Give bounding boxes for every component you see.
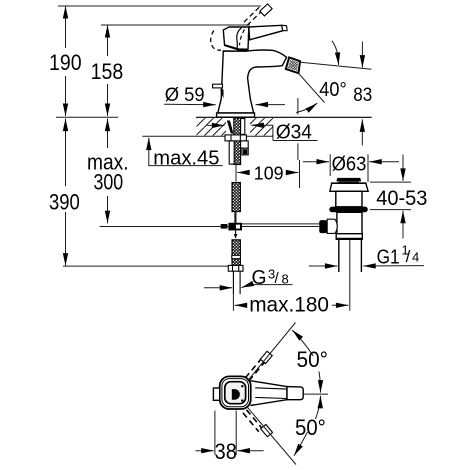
dashed lever (raised position) <box>244 7 263 25</box>
hose ferrule band <box>232 255 241 258</box>
countertop bottom line / max45 reference line <box>142 135 273 137</box>
head outer outline <box>220 376 251 409</box>
drain body upper <box>336 191 362 207</box>
reference line 158 datum <box>101 24 250 26</box>
dimension line 190 <box>65 6 67 48</box>
knob shadow wedge <box>220 90 224 99</box>
horizontal pop-up rod to drain <box>242 223 320 225</box>
Ø34 hole arrows <box>207 124 224 126</box>
reference line top (190 upper datum) <box>58 5 261 7</box>
aerator (spout outlet) <box>286 57 300 73</box>
max180 left extension line <box>232 294 234 311</box>
hose nipple right <box>241 141 249 148</box>
svg-text:300: 300 <box>94 170 124 195</box>
drain flange <box>330 183 368 191</box>
hose end nut <box>228 265 243 271</box>
spray axis extension line upper <box>297 98 299 115</box>
svg-text:max.180: max.180 <box>249 293 329 316</box>
head internal curve <box>237 28 242 50</box>
svg-text:190: 190 <box>49 50 82 75</box>
dimension line 158 <box>107 25 109 56</box>
lift rod below nut <box>229 141 234 164</box>
flexible hose upper segment <box>232 183 240 212</box>
Ø34 label underline <box>273 140 318 142</box>
svg-text:G1: G1 <box>377 247 400 269</box>
dashed head outline (alternate) <box>211 31 221 51</box>
lift rod knob on body <box>213 84 223 88</box>
40-53 reference lines <box>370 181 411 183</box>
svg-text:40°: 40° <box>319 79 346 101</box>
Ø59 right arrow <box>256 104 285 106</box>
dashed raised-lever front edge <box>240 30 245 46</box>
svg-text:G: G <box>252 267 267 289</box>
aerator face extension line <box>301 62 372 69</box>
head inner square <box>225 382 246 404</box>
arm tip block <box>287 387 303 400</box>
109 left extension line (hose axis) <box>235 162 237 182</box>
pop-up rod vertical <box>234 212 236 224</box>
max.300 bottom reference line <box>100 226 229 228</box>
G1 1/4 arrows <box>309 265 338 267</box>
lower 50 ray <box>247 407 296 465</box>
svg-text:Ø34: Ø34 <box>276 122 312 144</box>
109 right extension line <box>299 160 301 188</box>
head bottom thick edge <box>225 44 248 50</box>
390 bottom reference line <box>63 265 228 267</box>
svg-text:Ø 59: Ø 59 <box>165 85 205 106</box>
upper 50 arc <box>292 330 313 356</box>
rod socket on drain <box>327 219 337 233</box>
svg-text:40-53: 40-53 <box>376 187 427 210</box>
109 dimension arrows <box>237 172 246 174</box>
rod adjustment knob <box>319 220 327 233</box>
svg-text:/: / <box>406 247 411 266</box>
dimension line max.300 <box>107 119 109 148</box>
faucet body outline <box>218 50 287 113</box>
flexible hose lower segment <box>232 240 240 265</box>
drain plug cap <box>336 178 361 182</box>
svg-text:390: 390 <box>49 189 80 214</box>
svg-text:8: 8 <box>282 272 289 287</box>
drain centerline / max180 right extension <box>349 240 351 311</box>
upper dashed lever <box>245 358 261 378</box>
lever end cap <box>282 25 288 31</box>
drain lock nut <box>336 234 362 240</box>
drain body lower <box>337 212 362 233</box>
svg-text:83: 83 <box>353 85 372 106</box>
max.180 dimension <box>235 304 247 306</box>
lower 50 arc <box>316 396 321 419</box>
Ø63 arrows <box>303 161 329 163</box>
dimension line 390 <box>65 119 67 186</box>
40 degree diagonal line <box>298 73 324 103</box>
countertop hatching left of hole <box>197 118 227 136</box>
38 arrows <box>196 450 214 452</box>
countertop top line <box>196 116 372 118</box>
countertop hatching right of hole <box>250 118 273 136</box>
drain: Ø63 extension lines <box>329 154 331 176</box>
centerline right <box>304 393 328 395</box>
mounting nut <box>225 135 246 141</box>
left tab <box>213 388 219 400</box>
40 degree arc arrow <box>296 103 317 112</box>
svg-text:Ø63: Ø63 <box>332 153 367 175</box>
svg-text:50°: 50° <box>295 415 326 440</box>
threaded shank through countertop <box>234 118 241 165</box>
40-53 arrows <box>402 155 404 181</box>
Ø59 leader arrow <box>164 103 216 105</box>
left countertop datum segment <box>56 116 118 118</box>
shank left wedge <box>227 121 234 134</box>
max.45 arrow <box>148 138 150 148</box>
faucet head block <box>223 27 249 50</box>
dashed lever end cap <box>260 4 272 16</box>
svg-text:38: 38 <box>215 439 237 464</box>
arm inner lines <box>255 388 287 389</box>
rod lower stub <box>235 230 237 234</box>
svg-text:109: 109 <box>254 162 284 183</box>
svg-text:50°: 50° <box>297 347 329 372</box>
83 left arrow (slanted) <box>332 41 339 65</box>
38 extension lines <box>214 411 216 456</box>
svg-text:4: 4 <box>412 250 419 265</box>
max.45 leader box <box>149 148 223 166</box>
pop-up rod T connector <box>228 223 242 231</box>
G3/8 arrows <box>204 287 232 289</box>
corner dots <box>241 385 243 387</box>
upper 50 ray <box>248 323 296 382</box>
faucet base plinth <box>217 113 255 117</box>
handle arm top/bottom <box>250 381 287 406</box>
83 lower arrow <box>361 119 363 145</box>
svg-text:158: 158 <box>91 59 124 84</box>
lower dashed lever <box>247 410 263 429</box>
lever handle <box>249 25 283 40</box>
drain tailpipe <box>338 240 340 273</box>
svg-text:max.45: max.45 <box>153 147 219 169</box>
D mark <box>232 389 240 400</box>
G3/8 connection tube <box>232 271 234 294</box>
83 right upper arrow <box>361 42 363 68</box>
pop-up rod horizontal connector clamp <box>221 224 228 229</box>
drain O-ring <box>329 207 368 213</box>
shank right guide <box>241 119 245 135</box>
